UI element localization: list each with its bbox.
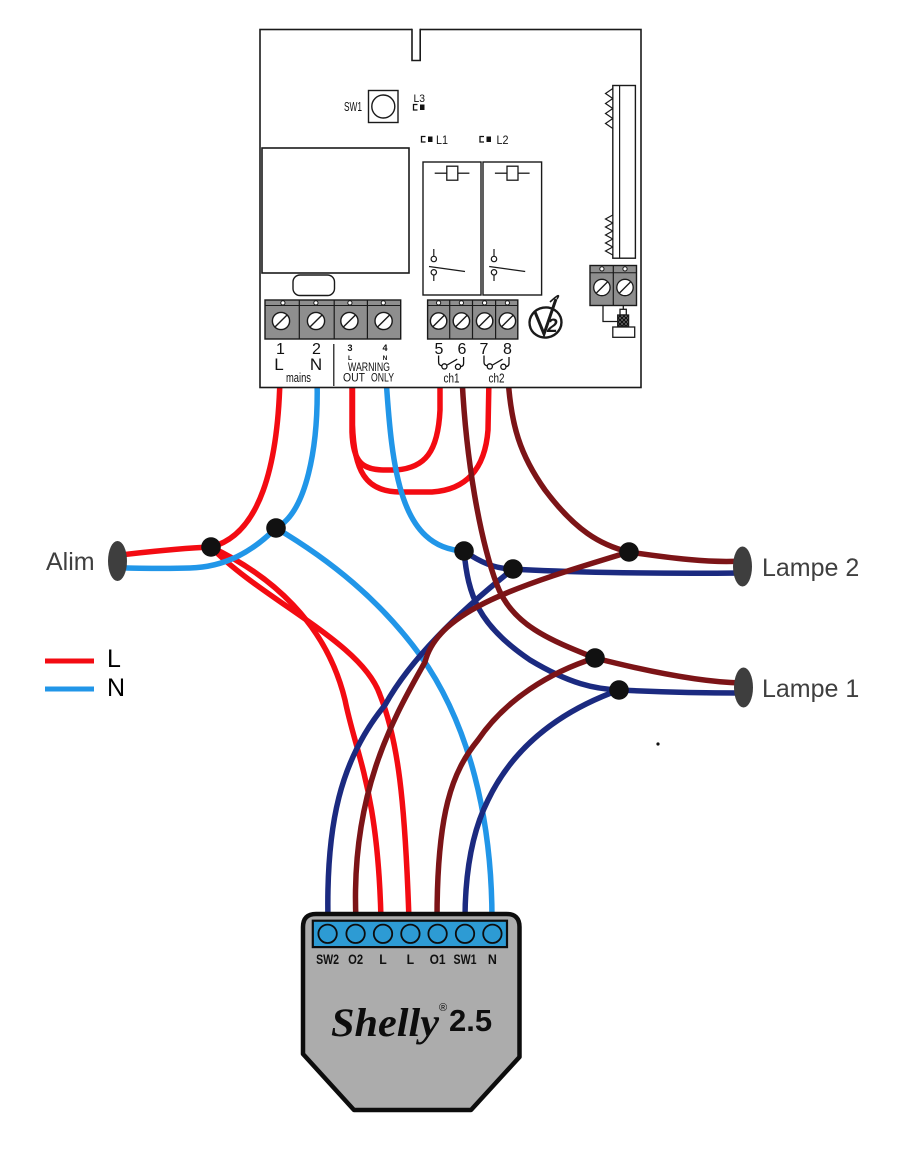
wire ch1 terminal 6 to node F: [462, 378, 595, 658]
relay K2 coil: [495, 166, 530, 180]
wire node B to Shelly N: [276, 528, 492, 920]
wire mains L: Alim to node A: [120, 547, 211, 555]
separator line: [333, 344, 335, 386]
terminal 8 screw: [499, 313, 515, 329]
wire ch2 terminal 8 to node E: [508, 378, 629, 552]
svg-text:7: 7: [480, 341, 489, 358]
svg-text:6: 6: [458, 341, 467, 358]
Shelly terminal hole O1: [428, 925, 446, 943]
svg-text:3: 3: [347, 343, 352, 353]
ch1/ch2 terminal block: [428, 300, 518, 339]
Shelly terminal hole L1: [374, 925, 392, 943]
Shelly terminal hole L2: [401, 925, 419, 943]
svg-text:SW1: SW1: [454, 952, 477, 967]
svg-text:Alim: Alim: [46, 548, 95, 576]
connector pod below transformer: [293, 275, 335, 296]
svg-text:2: 2: [546, 316, 558, 337]
wire node A to Shelly L (first): [211, 547, 381, 920]
stray dot: [656, 742, 659, 745]
Shelly terminal strip: [313, 921, 507, 947]
LED L3: [414, 93, 426, 110]
terminal 5 screw: [430, 313, 446, 329]
terminal 4 screw: [375, 312, 392, 329]
wire node C to node D: [464, 551, 513, 569]
wire node A to PCB terminal 1: [211, 378, 280, 547]
junction node A: [201, 537, 221, 557]
Shelly terminal hole SW2: [318, 925, 336, 943]
aux terminal block right: [590, 266, 637, 306]
svg-text:O1: O1: [430, 952, 446, 967]
wire warning OUT terminal 3 to ch1 terminal 5: [352, 378, 440, 470]
wire mains N: PCB terminal 2 to node B: [276, 378, 317, 528]
svg-text:ONLY: ONLY: [371, 371, 394, 385]
svg-text:ch1: ch1: [444, 371, 460, 386]
terminal 2 screw: [307, 312, 324, 329]
svg-text:N: N: [488, 952, 497, 967]
wire node E to Lampe 2 live: [629, 552, 741, 561]
wire node A to Shelly L (second): [211, 547, 409, 920]
terminal 3 screw: [341, 312, 358, 329]
pushbutton SW1: [344, 91, 398, 123]
svg-text:5: 5: [435, 341, 444, 358]
svg-text:OUT: OUT: [343, 371, 366, 385]
svg-text:mains: mains: [286, 370, 311, 385]
legend N line: [45, 687, 94, 692]
relay K2 box: [483, 162, 542, 295]
svg-text:SW1: SW1: [344, 100, 362, 114]
svg-text:L: L: [274, 355, 283, 374]
svg-text:SW2: SW2: [316, 952, 339, 967]
svg-text:L: L: [379, 952, 387, 967]
svg-text:L: L: [407, 952, 415, 967]
junction node C: [454, 541, 474, 561]
heatsink bar: [613, 86, 636, 259]
wire node D to Shelly SW2: [328, 569, 513, 920]
svg-text:Shelly: Shelly: [331, 1000, 439, 1045]
svg-text:4: 4: [382, 343, 387, 353]
Shelly 2.5 body: [303, 914, 520, 1110]
relay K1 contact: [429, 249, 465, 281]
wire node G to Lampe 1 neutral: [619, 690, 741, 693]
LED L2: [480, 133, 509, 147]
aux wiring and crystal component: [603, 306, 635, 338]
svg-text:N: N: [107, 674, 125, 702]
junction node D: [503, 559, 523, 579]
LED L1: [422, 133, 449, 147]
wire warning ONLY terminal 4 to node C: [386, 378, 464, 551]
wire node F to Lampe 1 live: [595, 658, 741, 683]
svg-text:8: 8: [503, 341, 512, 358]
svg-text:N: N: [310, 355, 322, 374]
wire node E to Shelly O2: [355, 552, 629, 920]
heatsink teeth lower: [606, 215, 613, 255]
wire node F to Shelly O1: [437, 658, 595, 920]
relay K1 coil: [435, 166, 470, 180]
Shelly terminal hole O2: [346, 925, 364, 943]
svg-text:L: L: [107, 645, 121, 673]
svg-text:2.5: 2.5: [449, 1003, 492, 1038]
relay K2 contact: [489, 249, 525, 281]
svg-text:L3: L3: [414, 93, 426, 105]
wire node D to Lampe 2 neutral: [513, 569, 741, 573]
heatsink teeth upper: [606, 89, 613, 129]
V2 logo: [527, 296, 564, 340]
legend L line: [45, 659, 94, 664]
Shelly terminal hole N: [483, 925, 501, 943]
transformer block: [262, 148, 409, 273]
svg-text:O2: O2: [348, 952, 363, 967]
PCB top slot: [412, 28, 420, 61]
svg-text:®: ®: [439, 1002, 447, 1014]
svg-text:Lampe 2: Lampe 2: [762, 554, 859, 582]
wire node G to Shelly SW1: [465, 690, 619, 920]
junction node G: [609, 680, 629, 700]
wire node C to node G: [464, 551, 619, 690]
terminal 1 screw: [272, 312, 289, 329]
junction node F: [585, 648, 605, 668]
terminal 6 screw: [453, 313, 469, 329]
terminal 7 screw: [476, 313, 492, 329]
wire node B to Alim: [122, 528, 276, 568]
junction node E: [619, 542, 639, 562]
Shelly terminal hole SW1: [456, 925, 474, 943]
svg-text:L1: L1: [436, 133, 448, 147]
junction node B: [266, 518, 286, 538]
svg-text:Lampe 1: Lampe 1: [762, 675, 859, 703]
ch2 switch symbol: [484, 356, 509, 370]
connector Lampe 2: [733, 547, 752, 587]
connector Alim: [108, 541, 127, 581]
wire warning OUT terminal 3 to ch2 terminal 7: [353, 378, 490, 492]
mains/warning terminal block: [265, 300, 401, 339]
PCB controller board outline: [260, 30, 641, 388]
svg-text:ch2: ch2: [489, 371, 505, 386]
svg-text:L2: L2: [497, 133, 509, 147]
ch1 switch symbol: [439, 356, 464, 370]
connector Lampe 1: [734, 668, 753, 708]
relay K1 box: [423, 162, 481, 295]
